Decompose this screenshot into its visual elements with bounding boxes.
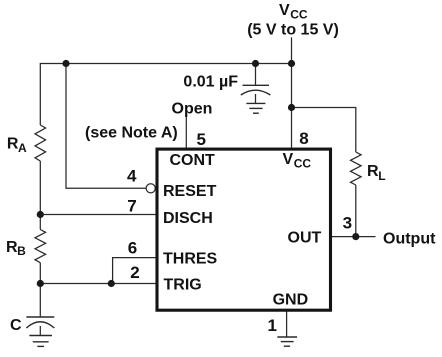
- junction node (VCC rail): [288, 60, 295, 67]
- wire RL branch: [292, 108, 356, 153]
- svg-text:1: 1: [268, 316, 277, 335]
- wire RA to RB: [39, 161, 41, 230]
- svg-text:OUT: OUT: [288, 230, 322, 247]
- capacitor 0.01uF top plate: [243, 84, 270, 86]
- capacitor 0.01uF bottom lead: [255, 94, 257, 103]
- svg-text:0.01 µF: 0.01 µF: [183, 73, 238, 90]
- wire GND pin 1: [286, 311, 288, 337]
- svg-text:GND: GND: [273, 292, 309, 309]
- svg-text:(5 V to 15 V): (5 V to 15 V): [247, 21, 339, 38]
- wire THRES branch: [113, 258, 157, 284]
- wire pin 5: [185, 117, 187, 149]
- svg-text:2: 2: [130, 263, 139, 282]
- svg-text:Output: Output: [383, 231, 436, 248]
- op-amp/timer IC U1 (555) body: [157, 149, 331, 310]
- ground (0.01uF): [246, 103, 265, 113]
- capacitor 0.01uF lead: [255, 64, 257, 86]
- wire RESET branch: [66, 64, 146, 189]
- svg-text:L: L: [378, 169, 385, 183]
- wire TRIG: [40, 283, 157, 285]
- svg-text:B: B: [17, 244, 26, 258]
- capacitor 0.01uF curved plate: [241, 90, 270, 95]
- capacitor C bottom lead: [39, 326, 41, 335]
- svg-text:R: R: [367, 163, 379, 180]
- svg-text:V: V: [279, 2, 290, 19]
- svg-text:CC: CC: [290, 7, 308, 21]
- svg-text:THRES: THRES: [163, 251, 218, 268]
- svg-text:DISCH: DISCH: [163, 210, 213, 227]
- svg-text:C: C: [10, 317, 22, 334]
- wire DISCH: [40, 214, 157, 216]
- svg-text:RESET: RESET: [163, 183, 217, 200]
- wire OUT to Output: [332, 236, 376, 238]
- capacitor C top plate: [26, 316, 54, 318]
- svg-text:A: A: [18, 141, 27, 155]
- svg-text:7: 7: [127, 197, 136, 216]
- svg-text:3: 3: [343, 214, 352, 233]
- ground (pin 1): [277, 337, 297, 346]
- svg-text:5: 5: [197, 130, 206, 149]
- junction node (0.01uF): [252, 60, 259, 67]
- RESET inverter bubble: [146, 184, 155, 193]
- svg-text:Open: Open: [172, 101, 213, 118]
- ground (capacitor C): [29, 336, 52, 347]
- wire RL to OUT node: [355, 185, 357, 237]
- svg-text:4: 4: [127, 167, 137, 186]
- wire RB to capacitor C: [39, 263, 41, 317]
- resistor RL: [351, 152, 362, 185]
- junction node (THRES-TRIG): [108, 280, 115, 287]
- junction node (RL branch): [288, 104, 295, 111]
- svg-text:(see Note A): (see Note A): [85, 124, 178, 141]
- svg-text:TRIG: TRIG: [164, 277, 202, 294]
- resistor RB: [35, 230, 46, 263]
- svg-text:8: 8: [299, 129, 308, 148]
- wire VCC vertical: [291, 37, 293, 148]
- junction node (top-left): [62, 60, 69, 67]
- svg-text:CC: CC: [294, 157, 312, 171]
- resistor RA: [35, 125, 46, 161]
- junction node (DISCH): [37, 211, 44, 218]
- capacitor C curved plate: [26, 322, 54, 328]
- junction node (OUT): [352, 233, 359, 240]
- wire top rail: [40, 64, 291, 126]
- svg-text:6: 6: [128, 239, 137, 258]
- svg-text:V: V: [283, 151, 294, 168]
- svg-text:CONT: CONT: [170, 152, 216, 169]
- junction node (TRIG-RB): [37, 280, 44, 287]
